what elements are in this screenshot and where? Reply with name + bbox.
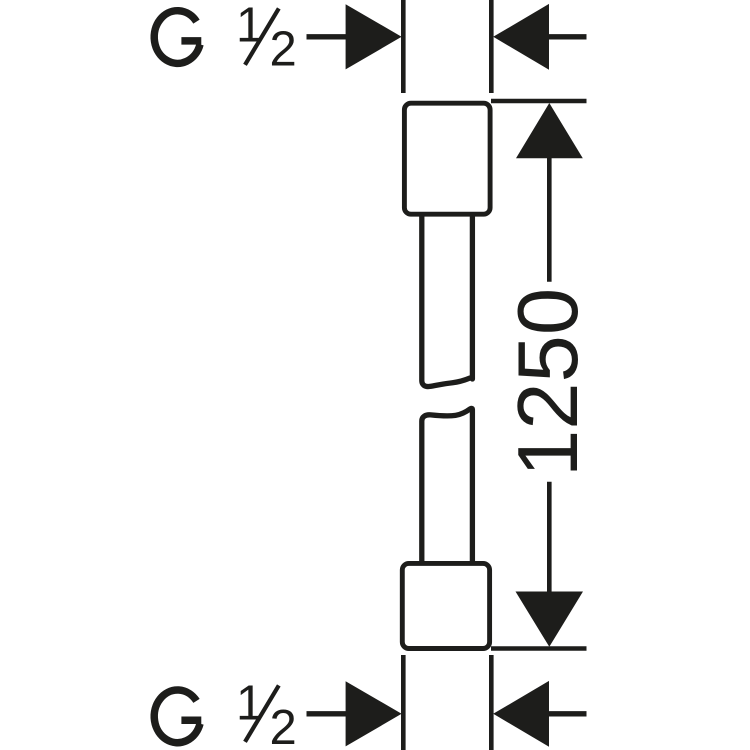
svg-text:2: 2	[270, 701, 297, 750]
svg-text:1250: 1250	[501, 288, 596, 477]
svg-text:1: 1	[236, 0, 263, 53]
svg-text:1: 1	[236, 677, 263, 731]
svg-text:2: 2	[270, 22, 297, 76]
